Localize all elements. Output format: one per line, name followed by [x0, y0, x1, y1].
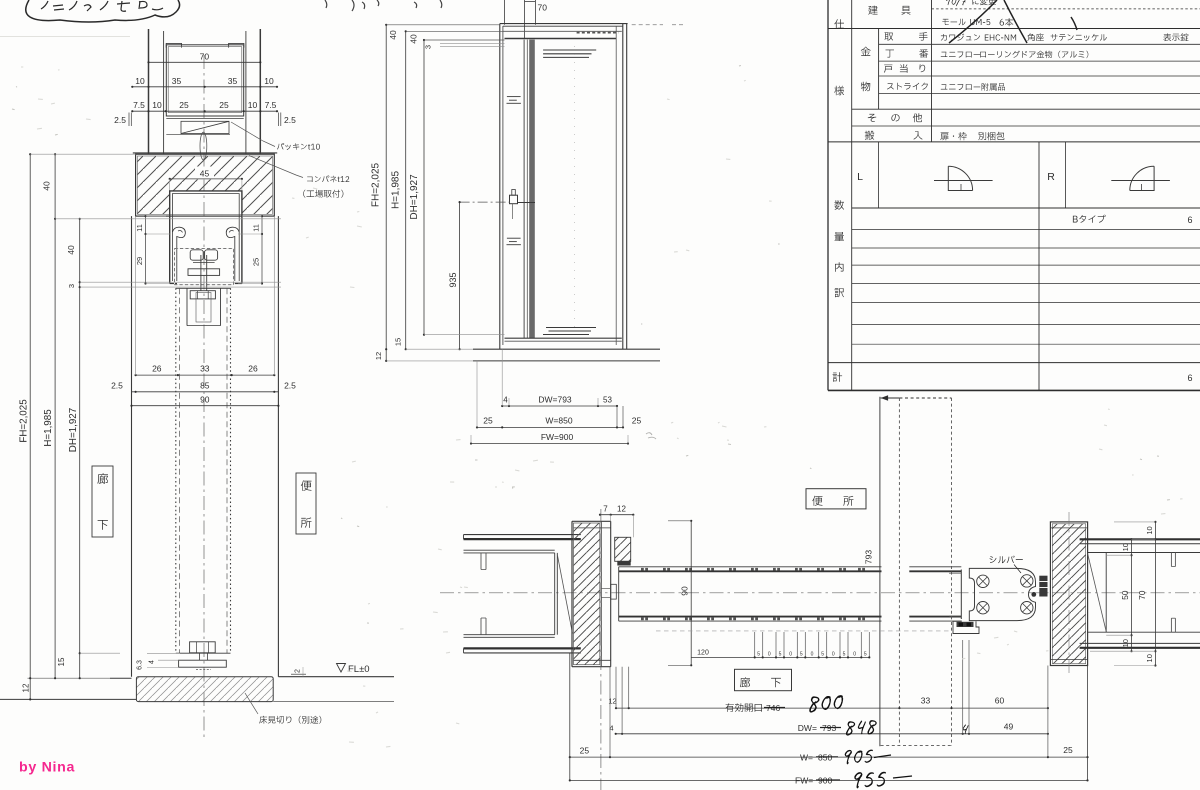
right jamb caps — [1050, 527, 1087, 529]
roller assembly dashed box — [175, 249, 234, 285]
door left end — [618, 567, 620, 621]
svg-text:25: 25 — [632, 415, 642, 425]
svg-text:2.5: 2.5 — [284, 115, 296, 125]
svg-text:40: 40 — [409, 34, 419, 44]
table row line under kanamono group — [852, 108, 1200, 110]
label silver handwritten — [990, 556, 1023, 564]
svg-text:90: 90 — [200, 394, 210, 404]
svg-text:DW=793: DW=793 — [538, 394, 572, 404]
dim 11 left — [145, 216, 147, 234]
door top edge — [176, 287, 231, 289]
table row line under tategu — [828, 28, 1200, 30]
svg-text:10: 10 — [1121, 543, 1130, 551]
7-12 ext verticals above post — [610, 515, 612, 522]
svg-text:25: 25 — [580, 746, 590, 756]
hanger nut — [190, 291, 215, 299]
svg-text:935: 935 — [448, 272, 458, 287]
left post bottom cap — [572, 666, 611, 668]
svg-text:70: 70 — [538, 3, 548, 13]
shaft wall right inner line — [245, 31, 247, 154]
dashes on top rail — [577, 32, 619, 34]
louver marks lower — [546, 327, 596, 329]
table outer left border — [827, 0, 829, 390]
dim 25 right — [261, 234, 263, 284]
table col line kanamono — [878, 29, 880, 110]
plan centerline horizontal — [440, 592, 1200, 594]
svg-text:6.3: 6.3 — [137, 660, 144, 670]
packing zone top line — [166, 118, 243, 120]
ext lines left dims — [30, 153, 135, 155]
rail bottom returns — [170, 283, 177, 285]
bottom guide nut — [190, 642, 216, 653]
bottom dim row1 effective opening — [616, 707, 1048, 709]
dim 11 right — [261, 216, 263, 234]
door right end cap — [960, 570, 962, 620]
left dim FH line — [29, 154, 31, 699]
svg-text:10: 10 — [248, 100, 258, 110]
table row line under strike — [879, 92, 1200, 94]
label kana-1 — [861, 47, 871, 56]
door centerline dotted faint — [574, 46, 576, 330]
svg-text:5: 5 — [821, 651, 824, 657]
svg-text:10: 10 — [135, 76, 145, 86]
packing mid line — [166, 134, 230, 136]
label torite — [884, 32, 893, 40]
label uchi — [835, 262, 844, 271]
right dims inner chain 10-50-10 — [1131, 539, 1133, 651]
table col line shiyou — [851, 0, 853, 390]
table middle divider lower — [1038, 142, 1040, 391]
elevation bottom ext lines — [424, 334, 505, 336]
svg-text:2.5: 2.5 — [284, 381, 296, 391]
svg-text:35: 35 — [228, 76, 238, 86]
svg-text:40: 40 — [42, 181, 52, 191]
svg-text:FH=2,025: FH=2,025 — [371, 162, 382, 207]
stray handwriting top-center — [325, 0, 365, 11]
left post right strip — [600, 521, 602, 666]
strike dark block on jamb — [1039, 576, 1047, 597]
svg-text:7.5: 7.5 — [265, 100, 277, 110]
vent mark left upper — [507, 96, 521, 98]
bottom guide plate — [179, 660, 227, 667]
svg-text:70: 70 — [200, 51, 210, 61]
table L cell divider — [878, 142, 880, 208]
svg-text:35: 35 — [172, 76, 182, 86]
louver marks upper right — [543, 49, 596, 51]
FL marker — [337, 664, 346, 673]
table R cell divider — [1064, 142, 1066, 208]
svg-text:49: 49 — [1004, 722, 1014, 732]
svg-text:3: 3 — [424, 45, 433, 49]
hanger bolt shaft — [200, 255, 202, 291]
table row line under toatari — [879, 75, 1200, 77]
left wall inner face top — [464, 549, 555, 551]
svg-text:70: 70 — [1137, 590, 1147, 600]
label kei total — [833, 372, 843, 382]
door bottom edge — [176, 652, 231, 654]
dim 7-12 top of post — [600, 514, 633, 516]
table bottom border — [828, 389, 1200, 391]
svg-text:26: 26 — [152, 364, 162, 374]
shaft wall right outer line — [259, 29, 261, 154]
label sonota — [868, 114, 876, 122]
dim 2.5 right — [278, 113, 280, 127]
svg-text:15: 15 — [394, 338, 403, 346]
svg-text:11: 11 — [252, 224, 261, 232]
dim 90 vertical — [690, 521, 692, 666]
left dim H line — [54, 154, 56, 678]
roller wheel left — [190, 250, 203, 260]
svg-text:2.5: 2.5 — [111, 381, 123, 391]
svg-text:4: 4 — [149, 660, 156, 664]
right wall diagonal brace — [1088, 554, 1107, 632]
svg-text:25: 25 — [1063, 745, 1073, 755]
toilet label box plan — [806, 489, 866, 509]
elevation bottom ext verticals — [501, 349, 503, 406]
elevation left dim H — [405, 31, 407, 349]
svg-text:29: 29 — [135, 257, 144, 265]
bottom ext verticals left — [569, 653, 571, 781]
ceiling runner bracket right — [229, 43, 244, 47]
svg-text:12: 12 — [617, 505, 626, 514]
packing strip — [181, 121, 229, 133]
hannyuu row text — [940, 132, 966, 140]
floor sill hatched strip — [136, 677, 273, 702]
svg-text:0: 0 — [789, 651, 792, 657]
table row line under chouban — [879, 60, 1200, 62]
dim 90 row — [132, 405, 279, 407]
dim 70 top — [149, 61, 261, 63]
left wall stud bottom — [480, 618, 482, 635]
lock roller bottom-left — [977, 602, 989, 614]
elevation door top rail lines — [503, 30, 622, 32]
svg-text:15: 15 — [57, 657, 66, 666]
svg-text:by Nina: by Nina — [19, 760, 75, 776]
header hatch right — [242, 156, 273, 214]
svg-text:7: 7 — [603, 505, 608, 514]
elevation pocket stile dark band — [523, 40, 525, 338]
svg-text:33: 33 — [200, 364, 210, 374]
door face screw marks — [641, 568, 644, 571]
svg-text:FH=2,025: FH=2,025 — [19, 399, 30, 443]
hanger cross plate — [188, 269, 220, 276]
svg-text:50: 50 — [1120, 590, 1130, 600]
floor line bottom left — [0, 698, 136, 700]
svg-text:DW=: DW= — [798, 723, 817, 733]
toilet label box — [296, 473, 316, 534]
dim 29 left — [145, 234, 147, 284]
pencil scribble near FW row — [646, 433, 656, 439]
bottom dim row2 DW — [616, 733, 1048, 735]
svg-text:2.5: 2.5 — [114, 115, 126, 125]
elevation left dim FH — [385, 25, 387, 361]
corridor label box plan — [735, 669, 792, 690]
svg-text:W=850: W=850 — [545, 415, 572, 425]
svg-text:H=1,985: H=1,985 — [391, 171, 402, 210]
left post top cap — [572, 520, 611, 522]
vent mark left lower — [507, 237, 521, 239]
torite row text — [941, 34, 980, 41]
shaft wall left outer line — [148, 29, 150, 154]
elevation frame right double line — [622, 24, 624, 350]
door panel top face — [619, 566, 882, 568]
label suu — [835, 200, 845, 210]
svg-text:4: 4 — [503, 395, 508, 404]
svg-text:DH=1,927: DH=1,927 — [409, 174, 420, 220]
bottom ext verticals right — [962, 640, 964, 734]
door swing symbol R — [1111, 180, 1170, 182]
handwritten note top cut — [946, 0, 966, 6]
door panel dotted edges — [175, 288, 177, 653]
table row line above total — [828, 362, 1200, 364]
svg-text:5: 5 — [843, 651, 846, 657]
svg-text:0: 0 — [768, 651, 771, 657]
svg-text:5: 5 — [757, 651, 760, 657]
elevation bottom dim row1 DW — [502, 405, 617, 407]
lock latch pin — [1031, 592, 1036, 597]
svg-text:25: 25 — [252, 258, 261, 266]
5-0-5 tick verticals — [754, 632, 756, 657]
svg-text:2: 2 — [295, 669, 302, 673]
floor line right below — [273, 701, 394, 703]
door panel bottom face — [619, 616, 882, 618]
left post hatched body — [574, 523, 600, 665]
svg-text:26: 26 — [248, 364, 258, 374]
bottom dim row3 W — [570, 756, 1088, 758]
label tategu — [868, 6, 877, 15]
label strike — [887, 83, 928, 90]
pocket dashed verticals — [898, 398, 900, 746]
svg-text:W=: W= — [800, 752, 813, 762]
table col line labels — [931, 0, 933, 142]
svg-text:5: 5 — [864, 651, 867, 657]
svg-text:L: L — [857, 171, 863, 183]
pocket box outer — [166, 45, 243, 116]
right wall outer board bottom — [1080, 642, 1200, 644]
svg-text:33: 33 — [921, 696, 931, 706]
dim 45 rail — [195, 167, 214, 180]
header hatch left — [137, 156, 169, 214]
elevation bottom dim row2 W — [477, 426, 623, 428]
rail lip left — [172, 227, 185, 281]
opening edge ext lines — [135, 216, 137, 375]
label wake — [835, 288, 845, 297]
tategu row2 text — [942, 19, 965, 26]
chouban row text — [941, 52, 980, 58]
svg-text:900: 900 — [818, 776, 832, 786]
table row line under sonota — [852, 125, 1200, 127]
right dims ext lines — [1114, 521, 1155, 523]
elevation door bottom rail — [505, 337, 622, 339]
svg-text:12: 12 — [608, 697, 616, 706]
table row line above LR — [828, 141, 1200, 143]
door panel inner dashed — [178, 288, 180, 653]
svg-text:53: 53 — [603, 395, 612, 404]
lock roller top-left — [977, 575, 989, 587]
left wall stud top — [480, 553, 482, 570]
svg-text:25: 25 — [483, 415, 493, 425]
right wall stud marks — [1170, 553, 1172, 567]
elevation dim 70 extension lines — [503, 0, 505, 25]
hanger bolt anchor — [200, 132, 207, 160]
svg-text:45: 45 — [200, 169, 210, 179]
elevation floor bottom line — [473, 360, 660, 362]
svg-text:R: R — [1047, 171, 1055, 183]
label kana-2 — [861, 82, 870, 92]
svg-text:10: 10 — [1121, 639, 1130, 647]
pocket box inner — [168, 47, 242, 113]
label toatari — [884, 65, 893, 73]
leader plywood t12 — [249, 156, 303, 178]
label shiyou-1 — [834, 19, 844, 29]
corridor label box — [92, 466, 113, 537]
roller wheel right — [205, 250, 218, 260]
label shiyou-2 — [834, 86, 844, 96]
dim 2.5 left — [128, 113, 130, 127]
post centerline vertical — [600, 509, 602, 790]
lock bottom bracket — [953, 621, 979, 634]
door stopper hatched block — [615, 537, 631, 561]
left dim DH line — [79, 219, 81, 678]
vertical section: centerline — [203, 55, 205, 737]
lock body outline — [969, 568, 1035, 620]
right wall inner face top — [1088, 552, 1200, 554]
svg-text:40: 40 — [388, 30, 398, 40]
right wall inner face bottom — [1088, 631, 1200, 633]
dim 120 and 5-0-5 chain line — [691, 656, 869, 658]
dim 935 vertical — [459, 202, 461, 349]
ceiling runner bracket left — [166, 43, 181, 47]
right jamb centerline — [1068, 512, 1070, 676]
svg-text:85: 85 — [200, 381, 210, 391]
svg-text:5: 5 — [779, 651, 782, 657]
svg-text:90: 90 — [680, 586, 690, 596]
dashed line right of door top — [632, 24, 663, 26]
dim 85 row — [132, 391, 279, 393]
floor FL left ext — [28, 677, 111, 679]
svg-text:0: 0 — [811, 651, 814, 657]
handwritten cloud top-left — [26, 0, 180, 22]
FL line right of section — [278, 676, 394, 678]
packing strip diagonal — [181, 121, 229, 133]
lock roller top-right — [1021, 575, 1033, 587]
pocket box bottom double line — [166, 115, 243, 117]
handle lock — [510, 195, 518, 204]
svg-text:10: 10 — [1145, 526, 1154, 534]
dim 793 vertical line — [879, 397, 881, 747]
strike row text — [941, 83, 1005, 91]
header top cap — [133, 152, 277, 154]
label B type — [1073, 215, 1106, 223]
svg-text:FW=: FW= — [795, 776, 813, 786]
bottom dim row4 FW — [570, 779, 1088, 781]
svg-text:FL±0: FL±0 — [348, 664, 370, 675]
leader packing t10 — [231, 122, 275, 147]
dim 935 leader dash-dot — [460, 201, 510, 203]
svg-text:3: 3 — [67, 284, 76, 288]
label floor sill — [259, 716, 321, 724]
door hanger bracket — [186, 288, 188, 325]
right wall outer board top — [1080, 538, 1200, 540]
hatched header inner border — [137, 156, 272, 214]
svg-text:H=1,985: H=1,985 — [43, 409, 54, 447]
svg-text:0: 0 — [853, 651, 856, 657]
scan artifact faint line — [0, 36, 130, 38]
shaft wall left inner line — [163, 31, 165, 154]
svg-text:25: 25 — [219, 100, 229, 110]
svg-text:25: 25 — [179, 100, 189, 110]
door swing symbol L — [934, 180, 993, 182]
svg-text:6: 6 — [1187, 373, 1192, 383]
left wall outer board bottom — [464, 647, 581, 649]
handwritten check strokes — [949, 0, 1077, 43]
handwritten note strokes in cloud — [41, 1, 163, 11]
label packing t10 — [277, 143, 320, 150]
left wall inner face bottom — [464, 634, 555, 636]
svg-text:12: 12 — [22, 683, 31, 692]
left wall pocket end verticals — [554, 553, 556, 635]
table row line under torite — [879, 43, 1200, 45]
door stopper seal dark — [617, 561, 630, 566]
elevation top ext lines — [386, 24, 500, 26]
hatched header outer — [136, 154, 275, 216]
table row line under LR — [852, 207, 1200, 209]
svg-text:6: 6 — [1187, 215, 1192, 225]
svg-text:10: 10 — [1145, 654, 1154, 662]
svg-text:10: 10 — [152, 100, 162, 110]
dim 7.5-10-25-25-10-7.5 — [132, 110, 277, 112]
elevation door right stile — [615, 26, 617, 345]
pocket dashed outline top — [881, 397, 900, 399]
right dims outer chain 10-70-10 — [1154, 522, 1156, 666]
left wall diagonal brace — [557, 555, 572, 634]
label ryou — [835, 232, 845, 241]
rail lip right — [226, 227, 239, 281]
dashes below door — [656, 630, 951, 632]
svg-text:793: 793 — [864, 550, 874, 564]
elevation FL line — [473, 348, 660, 350]
label chouban — [886, 50, 895, 58]
svg-text:120: 120 — [697, 649, 709, 656]
svg-text:12: 12 — [374, 352, 383, 360]
label plywood t12 — [307, 176, 349, 183]
svg-text:DH=1,927: DH=1,927 — [68, 408, 79, 452]
svg-text:10: 10 — [264, 76, 274, 86]
elevation bottom dim row3 FW — [471, 443, 628, 445]
svg-text:FW=900: FW=900 — [541, 432, 574, 442]
sill leader — [245, 693, 258, 714]
elevation frame left double line — [499, 24, 501, 350]
svg-text:0: 0 — [832, 651, 835, 657]
right jamb hatched — [1050, 522, 1087, 666]
dim 26-33-26 — [136, 374, 275, 376]
svg-text:11: 11 — [135, 224, 144, 232]
wall face right below header — [277, 216, 279, 677]
hanger rail channel — [170, 191, 242, 284]
table quantity row lines — [852, 229, 1200, 231]
svg-text:7.5: 7.5 — [133, 100, 145, 110]
pocket dashed bottom — [881, 745, 952, 747]
table dashed row line — [932, 8, 1200, 10]
right wall pocket vertical — [1105, 553, 1107, 633]
header hatch top strip — [170, 156, 242, 191]
elevation frame top lines — [500, 23, 628, 25]
svg-text:40: 40 — [66, 245, 76, 255]
lock roller bottom-right — [1021, 602, 1033, 614]
left post mid step — [611, 584, 617, 599]
label hannyuu — [865, 131, 874, 140]
wall face left below header — [131, 216, 133, 677]
